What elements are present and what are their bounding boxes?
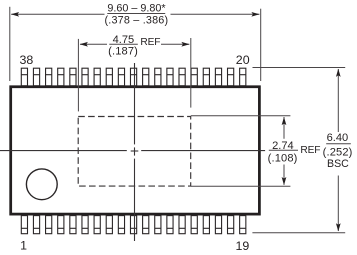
lead pin 28 (top) [143, 68, 149, 86]
lead pin 1 (bottom) [21, 216, 27, 234]
horizontal center line (right segment) [141, 150, 265, 152]
lead pin 25 (top) [179, 68, 185, 86]
lead pin 37 (top) [33, 68, 39, 86]
svg-text:(.378 – .386): (.378 – .386) [104, 14, 168, 26]
dim 9.60-9.80 right extension line [260, 9, 262, 81]
dim 4.75 right extension line [190, 38, 192, 108]
horizontal center line (left segment) [0, 150, 127, 152]
lead pin 7 (bottom) [94, 216, 100, 234]
dim 2.74 bottom extension line [191, 185, 291, 187]
dim 4.75 right arrowhead [181, 42, 189, 47]
lead pin 5 (bottom) [70, 216, 76, 234]
svg-text:38: 38 [20, 53, 34, 67]
dim 2.74 down arrowhead [282, 177, 287, 185]
svg-text:9.60 – 9.80*: 9.60 – 9.80* [107, 3, 166, 15]
svg-text:1: 1 [20, 238, 27, 252]
lead pin 15 (bottom) [191, 216, 197, 234]
dim 9.60-9.80 left extension line [9, 7, 11, 81]
lead pin 33 (top) [82, 68, 88, 86]
exposed pad (dashed outline) [78, 117, 191, 187]
lead pin 27 (top) [155, 68, 161, 86]
dim 9.60-9.80 left arrowhead [11, 12, 19, 17]
lead pin 2 (bottom) [33, 216, 39, 234]
lead pin 17 (bottom) [215, 216, 221, 234]
dim 4.75 left arrowhead [80, 42, 88, 47]
lead pin 29 (top) [130, 68, 136, 86]
dim 9.60-9.80 line right segment [171, 13, 260, 15]
dim 6.40 up arrowhead [336, 69, 341, 77]
dim 6.40 bottom extension line [252, 232, 345, 234]
horizontal center line (cross bar) [131, 150, 139, 152]
dim 6.40 fraction bar [326, 143, 351, 145]
dim 4.75 left extension line [77, 39, 79, 112]
lead pin 8 (bottom) [106, 216, 112, 234]
lead pin 4 (bottom) [58, 216, 64, 234]
lead pin 12 (bottom) [155, 216, 161, 234]
dim 2.74 top extension line [191, 115, 291, 117]
svg-text:20: 20 [236, 53, 250, 67]
lead pin 21 (top) [228, 68, 234, 86]
svg-text:REF: REF [300, 145, 320, 156]
svg-text:REF: REF [140, 37, 160, 48]
lead pin 24 (top) [191, 68, 197, 86]
vertical center line (upper segment) [134, 63, 136, 144]
lead pin 26 (top) [167, 68, 173, 86]
svg-text:6.40: 6.40 [327, 132, 349, 144]
dim 2.74 fraction bar [269, 149, 298, 151]
lead pin 13 (bottom) [167, 216, 173, 234]
lead pin 23 (top) [203, 68, 209, 86]
dim 6.40 top extension line [253, 67, 346, 69]
lead pin 22 (top) [215, 68, 221, 86]
svg-text:(.252): (.252) [323, 146, 353, 158]
lead pin 36 (top) [46, 68, 52, 86]
dim 6.40 down arrowhead [336, 223, 341, 231]
dim 4.75 line left segment [80, 43, 107, 45]
dim 9.60-9.80 fraction bar [107, 13, 165, 15]
package body outline [11, 87, 260, 214]
lead pin 30 (top) [118, 68, 124, 86]
svg-text:19: 19 [236, 239, 250, 253]
lead pin 34 (top) [70, 68, 76, 86]
svg-text:(.187): (.187) [108, 46, 138, 58]
svg-text:BSC: BSC [327, 158, 349, 170]
dim 9.60-9.80 line left segment [11, 13, 104, 15]
svg-text:(.108): (.108) [268, 152, 298, 164]
lead pin 14 (bottom) [179, 216, 185, 234]
dim 9.60-9.80 right arrowhead [251, 12, 259, 17]
lead pin 10 (bottom) [130, 216, 136, 234]
lead pin 6 (bottom) [82, 216, 88, 234]
lead pin 11 (bottom) [143, 216, 149, 234]
dim 2.74 upper stem [283, 117, 285, 139]
lead pin 19 (bottom) [240, 216, 246, 234]
vertical center line (lower segment) [134, 159, 136, 241]
lead pin 20 (top) [240, 68, 246, 86]
dim 4.75 line right segment [161, 43, 189, 45]
lead pin 18 (bottom) [228, 216, 234, 234]
lead pin 35 (top) [58, 68, 64, 86]
dim 2.74 up arrowhead [282, 117, 287, 125]
dim 6.40 lower stem [337, 176, 339, 232]
lead pin 38 (top) [21, 68, 27, 86]
lead pin 3 (bottom) [46, 216, 52, 234]
dim 2.74 lower stem [283, 165, 285, 185]
lead pin 9 (bottom) [118, 216, 124, 234]
lead pin 32 (top) [94, 68, 100, 86]
vertical center line (cross bar) [134, 147, 136, 155]
pin 1 indicator circle [26, 169, 57, 200]
lead pin 31 (top) [106, 68, 112, 86]
dim 4.75 fraction bar [109, 43, 138, 45]
lead pin 16 (bottom) [203, 216, 209, 234]
dim 6.40 upper stem [337, 69, 339, 132]
